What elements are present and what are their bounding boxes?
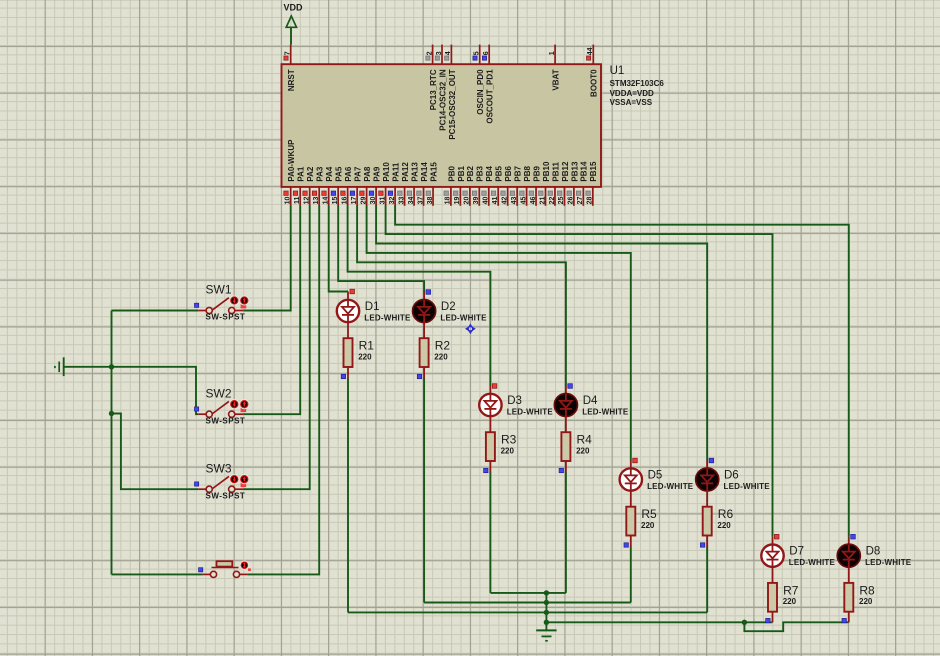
svg-text:R7: R7 [783,583,799,597]
svg-text:VDDA=VDD: VDDA=VDD [610,89,654,98]
svg-text:PB1: PB1 [457,165,466,181]
svg-text:38: 38 [427,197,434,205]
svg-text:21: 21 [539,197,546,205]
svg-text:4: 4 [445,51,452,55]
svg-text:PA5: PA5 [335,166,344,182]
svg-text:220: 220 [641,521,655,530]
svg-text:D7: D7 [789,546,804,558]
svg-text:220: 220 [783,597,797,606]
svg-text:PB9: PB9 [532,165,541,181]
svg-text:46: 46 [530,197,537,205]
svg-text:44: 44 [587,47,594,55]
svg-text:42: 42 [501,197,508,205]
svg-text:OSCIN_PD0: OSCIN_PD0 [476,69,485,115]
svg-text:D1: D1 [365,301,380,313]
svg-text:LED-WHITE: LED-WHITE [789,558,836,567]
svg-text:15: 15 [332,197,339,205]
svg-text:18: 18 [445,197,452,205]
svg-text:STM32F103C6: STM32F103C6 [610,79,665,88]
svg-text:26: 26 [568,197,575,205]
svg-text:PB12: PB12 [561,161,570,182]
svg-text:19: 19 [454,197,461,205]
svg-text:SW-SPST: SW-SPST [206,491,246,500]
svg-text:PB11: PB11 [551,161,560,181]
svg-text:PB10: PB10 [542,161,551,182]
svg-text:LED-WHITE: LED-WHITE [440,314,487,323]
svg-text:PC14-OSC32_IN: PC14-OSC32_IN [438,69,447,131]
svg-text:10: 10 [285,197,292,205]
svg-text:PA8: PA8 [363,166,372,182]
svg-text:13: 13 [313,197,320,205]
svg-text:R8: R8 [859,583,875,597]
svg-text:R4: R4 [577,433,593,447]
svg-text:D2: D2 [441,301,456,313]
svg-text:D3: D3 [507,395,522,407]
svg-text:R1: R1 [359,339,375,353]
svg-text:220: 220 [434,352,448,361]
svg-text:220: 220 [576,446,590,455]
svg-text:41: 41 [492,197,499,205]
svg-text:BOOT0: BOOT0 [590,69,599,97]
svg-text:OSCOUT_PD1: OSCOUT_PD1 [486,69,495,124]
svg-text:PA14: PA14 [420,162,429,182]
svg-text:SW1: SW1 [206,283,232,297]
svg-text:3: 3 [436,51,443,55]
svg-text:22: 22 [549,197,556,205]
svg-text:40: 40 [483,197,490,205]
svg-text:NRST: NRST [287,69,296,91]
svg-text:R2: R2 [435,339,451,353]
svg-text:20: 20 [464,197,471,205]
svg-text:LED-WHITE: LED-WHITE [724,482,771,491]
svg-text:PA2: PA2 [306,166,315,182]
svg-text:39: 39 [473,197,480,205]
svg-text:D6: D6 [724,469,739,481]
svg-text:PA13: PA13 [410,162,419,182]
svg-text:D4: D4 [583,395,598,407]
svg-text:VSSA=VSS: VSSA=VSS [610,98,653,107]
svg-text:PB2: PB2 [466,165,475,181]
svg-text:LED-WHITE: LED-WHITE [582,408,629,417]
svg-text:SW-SPST: SW-SPST [206,313,246,322]
svg-text:2: 2 [426,51,433,55]
svg-text:17: 17 [351,197,358,205]
svg-text:25: 25 [558,197,565,205]
svg-text:PA0-WKUP: PA0-WKUP [287,139,296,182]
svg-text:37: 37 [417,197,424,205]
svg-text:220: 220 [717,521,731,530]
svg-text:PA6: PA6 [344,166,353,182]
svg-text:PA11: PA11 [391,162,400,182]
svg-text:R5: R5 [641,507,657,521]
svg-text:5: 5 [474,51,481,55]
svg-text:D5: D5 [648,469,663,481]
svg-text:PC13_RTC: PC13_RTC [429,69,438,110]
svg-text:12: 12 [303,197,310,205]
svg-text:43: 43 [511,197,518,205]
svg-text:PC15-OSC32_OUT: PC15-OSC32_OUT [448,69,457,139]
svg-text:220: 220 [859,597,873,606]
svg-text:SW-SPST: SW-SPST [206,416,246,425]
svg-text:34: 34 [408,197,415,205]
svg-text:PB3: PB3 [476,165,485,181]
svg-text:7: 7 [285,51,292,55]
svg-text:LED-WHITE: LED-WHITE [364,314,411,323]
svg-text:1: 1 [549,51,556,55]
svg-text:220: 220 [501,446,515,455]
svg-text:LED-WHITE: LED-WHITE [647,482,694,491]
svg-text:SW3: SW3 [206,461,232,475]
svg-text:30: 30 [370,197,377,205]
svg-text:16: 16 [341,197,348,205]
svg-text:6: 6 [483,51,490,55]
svg-text:32: 32 [389,197,396,205]
svg-text:11: 11 [294,196,301,204]
svg-text:PB8: PB8 [523,165,532,181]
svg-text:PB6: PB6 [504,165,513,181]
svg-text:29: 29 [360,197,367,205]
svg-text:R3: R3 [501,433,517,447]
svg-text:VBAT: VBAT [552,69,561,90]
svg-text:LED-WHITE: LED-WHITE [865,558,912,567]
svg-text:PA7: PA7 [354,166,363,182]
svg-text:U1: U1 [610,65,625,77]
svg-text:PB7: PB7 [514,165,523,181]
svg-text:VDD: VDD [284,3,304,13]
svg-text:45: 45 [520,197,527,205]
svg-text:PB15: PB15 [589,161,598,182]
svg-text:SW2: SW2 [206,386,232,400]
svg-text:PA9: PA9 [373,166,382,182]
svg-text:PA4: PA4 [325,166,334,182]
svg-text:PB0: PB0 [447,165,456,181]
svg-text:D8: D8 [866,546,881,558]
svg-text:PA10: PA10 [382,162,391,182]
svg-text:PB4: PB4 [485,165,494,181]
svg-text:PA12: PA12 [401,162,410,182]
svg-text:PA15: PA15 [429,162,438,182]
svg-text:33: 33 [398,197,405,205]
svg-text:PB14: PB14 [580,161,589,182]
svg-text:220: 220 [358,352,372,361]
svg-text:28: 28 [587,197,594,205]
svg-text:31: 31 [379,197,386,205]
svg-text:27: 27 [577,197,584,205]
svg-text:LED-WHITE: LED-WHITE [507,408,554,417]
svg-text:PB13: PB13 [570,161,579,182]
svg-text:14: 14 [322,197,329,205]
svg-text:PA3: PA3 [316,166,325,182]
svg-text:R6: R6 [718,507,734,521]
svg-text:PB5: PB5 [495,165,504,181]
svg-text:PA1: PA1 [297,166,306,182]
